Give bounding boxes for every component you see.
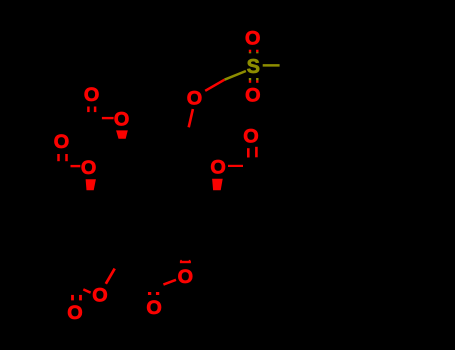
bond O10-carbonyl C red half	[83, 289, 90, 292]
svg-text:O: O	[245, 85, 260, 107]
svg-text:O: O	[54, 131, 69, 153]
svg-text:O: O	[178, 266, 193, 288]
bond O12-carbonyl C red half	[163, 280, 176, 285]
svg-text:O: O	[67, 302, 82, 324]
bond S=O6 double bond olive half	[250, 52, 257, 53]
bond O5-S olive half	[225, 71, 246, 80]
svg-text:O: O	[210, 157, 225, 179]
svg-text:O: O	[245, 27, 260, 49]
bond C-O4 ester single bond red half	[71, 165, 81, 167]
bond C-O2 ester single bond red half	[102, 117, 114, 119]
bond C=O13 double bond red half	[150, 292, 158, 295]
svg-text:O: O	[114, 108, 129, 130]
bond C=O3 double bond red half	[59, 154, 67, 161]
bond O10-ring carbon red half	[106, 269, 115, 284]
bond O5-S red half	[205, 80, 224, 91]
bond wedge O8 to ring carbon (red half)	[212, 179, 223, 190]
svg-text:O: O	[84, 84, 99, 106]
bond C=O9 double bond red half	[248, 147, 256, 158]
bond wedge O2 to ring carbon (red half)	[116, 130, 128, 138]
bond S-CH3 olive half	[263, 64, 280, 67]
bond S=O6 double bond red half	[250, 50, 257, 53]
bond C=O1 double bond red half	[88, 107, 95, 113]
bond wedge O4 to ring carbon (red half)	[86, 179, 96, 190]
svg-text:O: O	[81, 157, 96, 179]
bond C-O8 ester single bond red half	[228, 165, 243, 167]
svg-text:O: O	[146, 297, 161, 319]
bond S=O7 double bond red half	[250, 80, 257, 82]
bond C=O11 double bond red half	[73, 295, 81, 301]
bond O12-ring carbon red half (horizontal bar above O12)	[180, 261, 191, 263]
svg-text:O: O	[243, 125, 258, 147]
bond S=O7 double bond olive half	[250, 78, 257, 80]
bond O5-CH2 red half	[189, 109, 193, 127]
svg-text:O: O	[92, 284, 107, 306]
svg-text:O: O	[187, 87, 202, 109]
svg-text:S: S	[247, 56, 260, 78]
